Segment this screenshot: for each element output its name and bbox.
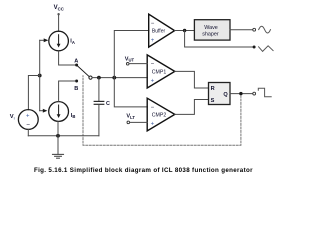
junction ground xyxy=(56,134,60,138)
terminal sine output xyxy=(253,28,256,31)
svg-text:IB: IB xyxy=(71,113,76,119)
buffer U1 xyxy=(149,14,175,47)
square wave symbol xyxy=(258,88,271,97)
svg-text:+: + xyxy=(151,38,155,44)
capacitor C xyxy=(94,101,104,104)
junction Q output xyxy=(239,92,242,95)
wire pole to comparator node xyxy=(92,77,147,79)
sine wave symbol xyxy=(259,26,271,33)
svg-text:VCC: VCC xyxy=(54,5,64,11)
junction buffer branch xyxy=(112,76,116,80)
comparator CMP1 xyxy=(147,55,175,88)
terminal triangle output xyxy=(253,46,256,49)
wire left rail vertical xyxy=(39,40,41,110)
wire junction to V source xyxy=(28,76,39,110)
svg-text:Fig. 5.16.1 Simplified block d: Fig. 5.16.1 Simplified block diagram of … xyxy=(34,167,253,174)
terminal VLT xyxy=(127,121,130,124)
label VLT xyxy=(126,114,135,120)
wire V to ground rail xyxy=(27,129,29,135)
svg-text:+: + xyxy=(151,121,155,127)
arrow into IA xyxy=(40,38,49,42)
svg-text:+: + xyxy=(26,113,30,119)
junction buffer output xyxy=(183,29,186,32)
svg-text:IA: IA xyxy=(70,39,75,45)
svg-text:−: − xyxy=(151,21,155,27)
svg-text:−: − xyxy=(26,122,30,129)
svg-text:Wave: Wave xyxy=(204,25,218,31)
wire buffer to triangle terminal xyxy=(185,31,253,48)
wire VLT to CMP2 plus xyxy=(130,121,148,123)
node B terminal xyxy=(75,80,78,83)
switch pole contact xyxy=(89,76,92,79)
label IB xyxy=(71,113,76,119)
terminal square output xyxy=(253,92,256,95)
wire buffer input riser xyxy=(114,31,149,78)
wire capacitor to ground rail xyxy=(98,105,100,136)
svg-text:shaper: shaper xyxy=(202,32,219,38)
node A terminal xyxy=(75,64,78,67)
svg-text:−: − xyxy=(151,61,155,67)
wire IB to node B xyxy=(59,81,76,101)
wire buffer output xyxy=(175,30,195,32)
wire IB to ground rail xyxy=(57,122,59,136)
label IA xyxy=(70,39,75,45)
ground symbol xyxy=(53,136,64,158)
wire CMP2 to S input xyxy=(175,100,209,115)
triangle wave symbol xyxy=(259,46,274,52)
ground rail xyxy=(28,135,99,137)
svg-text:+: + xyxy=(151,79,155,85)
wire VUT to CMP1 minus xyxy=(129,63,147,65)
net VCC label xyxy=(54,5,64,11)
svg-text:R: R xyxy=(211,86,215,92)
svg-text:VUT: VUT xyxy=(125,56,135,62)
comparator CMP2 xyxy=(147,98,175,131)
svg-text:Buffer: Buffer xyxy=(152,29,166,35)
svg-text:−: − xyxy=(151,105,155,111)
node A label xyxy=(74,59,78,65)
left rail junction xyxy=(38,74,42,78)
svg-text:S: S xyxy=(211,98,215,104)
svg-text:VLT: VLT xyxy=(126,114,135,120)
svg-text:CMP2: CMP2 xyxy=(152,112,167,118)
caption xyxy=(34,167,253,174)
node B label xyxy=(74,86,78,92)
label C xyxy=(106,101,110,107)
wire Q output xyxy=(230,93,253,95)
svg-text:C: C xyxy=(106,101,110,107)
junction capacitor branch xyxy=(97,76,101,80)
voltage source V xyxy=(18,110,38,130)
wire IA to node A xyxy=(59,51,76,65)
arrow into IB xyxy=(40,109,48,113)
wire VCC to IA xyxy=(58,15,60,31)
label VUT xyxy=(125,56,135,62)
switch arm A to pole xyxy=(77,66,89,77)
wave shaper block xyxy=(194,20,230,40)
dashed feedback Q to switch xyxy=(83,76,241,146)
current source IA xyxy=(49,31,69,51)
wire CMP1 to R input xyxy=(175,71,209,88)
label V xyxy=(10,114,15,120)
wire node to capacitor xyxy=(98,78,100,101)
wire node to CMP2 minus xyxy=(114,78,147,107)
svg-text:A: A xyxy=(74,59,78,65)
current source IB xyxy=(49,102,69,122)
svg-text:B: B xyxy=(74,86,78,92)
svg-text:Q: Q xyxy=(223,92,228,98)
terminal VUT xyxy=(126,63,129,66)
svg-text:Vi: Vi xyxy=(10,114,15,120)
wire wave shaper to sine terminal xyxy=(230,29,253,31)
terminal VCC xyxy=(57,13,59,15)
svg-text:CMP1: CMP1 xyxy=(152,69,167,75)
flip-flop U2 xyxy=(209,83,231,105)
